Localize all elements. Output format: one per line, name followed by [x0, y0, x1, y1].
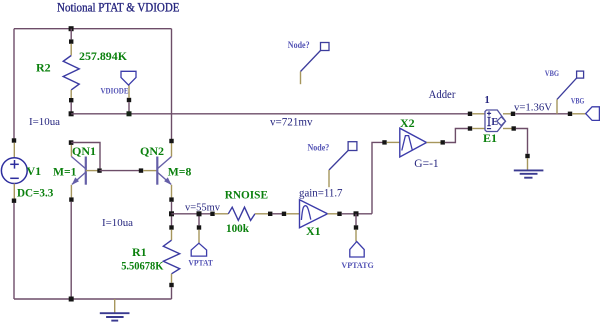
probe VDIODE: [121, 71, 136, 114]
svg-text:v=721mv: v=721mv: [270, 117, 313, 129]
wire QN1 emitter down: [70, 202, 72, 299]
svg-text:257.894K: 257.894K: [79, 49, 128, 63]
flag Node? lower: [308, 142, 357, 188]
svg-text:Node?: Node?: [308, 142, 330, 152]
probe VPTATG: [350, 214, 364, 257]
svg-text:I=10ua: I=10ua: [102, 217, 133, 229]
svg-text:I=10ua: I=10ua: [29, 116, 60, 128]
svg-text:5.50678K: 5.50678K: [121, 259, 164, 273]
adder E1: [468, 110, 516, 132]
ground E1: [514, 154, 544, 178]
svg-text:VPTATG: VPTATG: [341, 260, 374, 270]
svg-text:Node?: Node?: [288, 40, 310, 50]
svg-text:gain=11.7: gain=11.7: [299, 188, 343, 200]
svg-text:DC=3.3: DC=3.3: [17, 185, 53, 199]
svg-text:VBG: VBG: [571, 97, 585, 106]
svg-text:Adder: Adder: [429, 89, 456, 101]
node junction VDIODE: [127, 111, 132, 116]
svg-text:VPTAT: VPTAT: [188, 257, 213, 267]
wire E1 out+ to VBG: [515, 113, 570, 115]
svg-text:Notional PTAT & VDIODE: Notional PTAT & VDIODE: [57, 0, 180, 15]
node junction R2 bottom: [69, 111, 74, 116]
svg-text:M=1: M=1: [53, 164, 77, 178]
node junction QN1 emitter rail: [69, 297, 74, 302]
svg-text:v=55mv: v=55mv: [185, 202, 220, 214]
transistor QN1: [69, 140, 102, 201]
wire v=721mv long horizontal: [71, 113, 470, 115]
node junction above R2: [69, 26, 74, 31]
resistor R2: [63, 29, 79, 114]
svg-text:RNOISE: RNOISE: [225, 188, 268, 202]
wire top rail: [14, 28, 172, 30]
svg-text:100k: 100k: [226, 221, 249, 235]
amplifier X2: [382, 128, 445, 157]
svg-text:VBG: VBG: [545, 69, 559, 78]
svg-text:X1: X1: [306, 224, 321, 238]
node junction v=55mv: [169, 211, 174, 216]
wire E1 out- to ground: [516, 129, 528, 154]
flag Node? upper: [288, 40, 329, 84]
svg-text:R1: R1: [132, 245, 147, 259]
probe VBG output: [568, 107, 600, 121]
svg-text:QN1: QN1: [72, 144, 96, 158]
resistor R1: [163, 225, 179, 299]
svg-text:V1: V1: [27, 164, 42, 178]
transistor QN2: [139, 139, 174, 202]
source V1: [1, 138, 27, 299]
wire X1 out to junction: [342, 213, 372, 215]
node junction VPTAT: [197, 211, 202, 216]
wire v=55mv: [172, 213, 213, 215]
amplifier X1: [282, 200, 342, 228]
svg-text:E1: E1: [483, 131, 497, 145]
wire QN2 collector riser: [171, 29, 173, 141]
svg-text:M=8: M=8: [168, 164, 192, 178]
svg-text:G=-1: G=-1: [414, 158, 439, 170]
probe VPTAT: [191, 214, 206, 256]
svg-text:1: 1: [485, 95, 490, 106]
resistor RNOISE: [210, 207, 272, 220]
svg-text:QN2: QN2: [140, 144, 164, 158]
wire base QN1-QN2: [100, 170, 142, 172]
svg-text:v=1.36V: v=1.36V: [514, 103, 552, 114]
wire bottom rail: [14, 298, 172, 300]
wire QN1 collector-base tie: [71, 143, 100, 169]
wire RNOISE to X1: [272, 213, 284, 215]
ground main: [100, 299, 130, 321]
wire X2 out to E1: [445, 129, 470, 143]
svg-text:R2: R2: [36, 61, 51, 75]
flag VBG upper: [545, 69, 584, 114]
svg-text:VDIODE: VDIODE: [101, 86, 129, 96]
svg-text:X2: X2: [400, 116, 415, 130]
wire left vertical V1 top: [13, 29, 15, 140]
wire riser to X2: [372, 142, 385, 213]
wire QN2 emitter down: [171, 202, 173, 228]
node junction X1 out: [354, 211, 359, 216]
